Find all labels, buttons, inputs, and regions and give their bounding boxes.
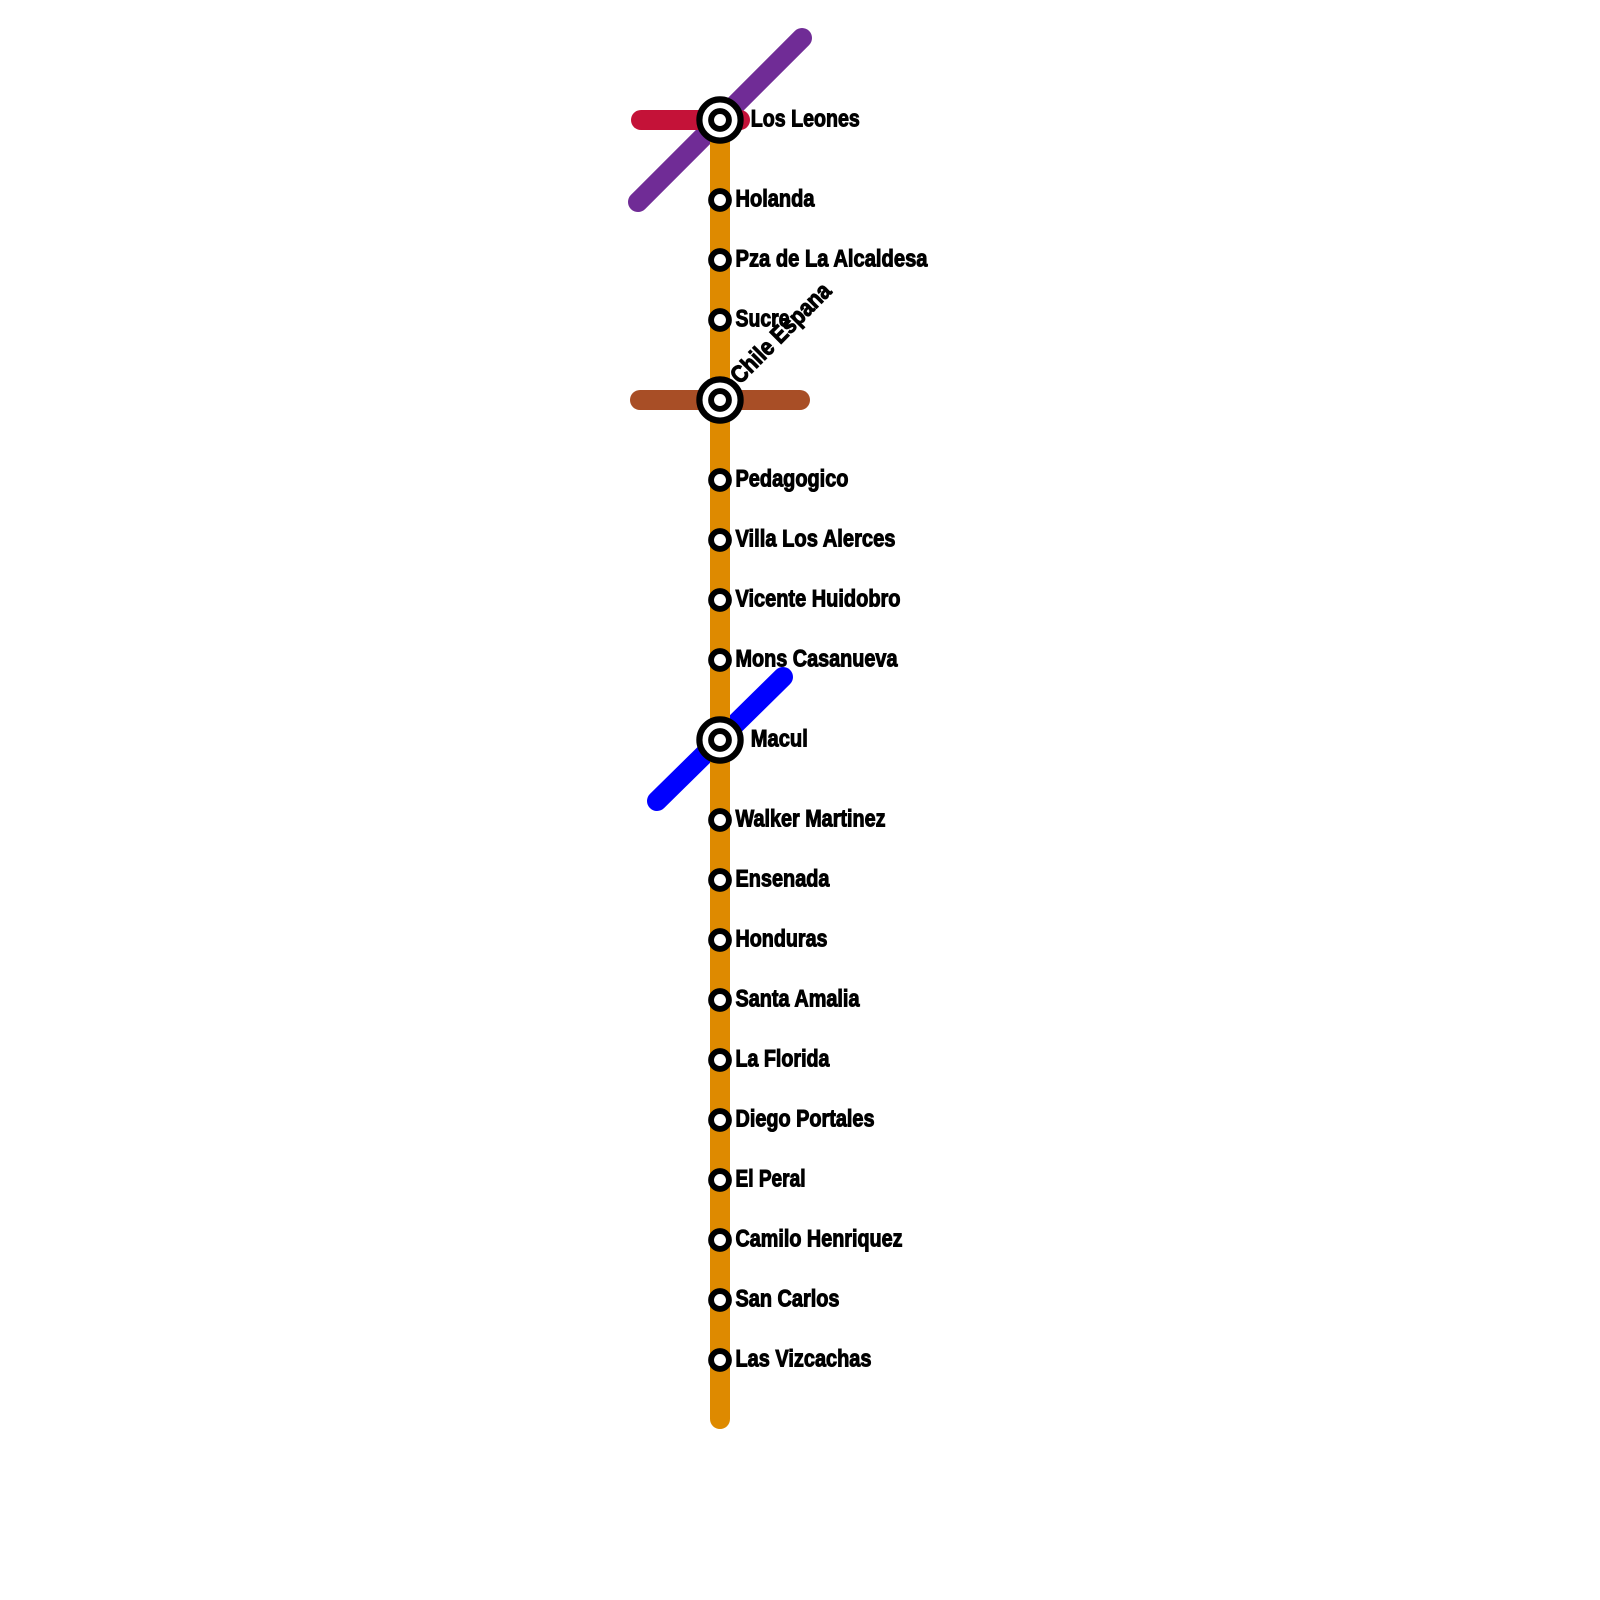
svg-text:Pza de La Alcaldesa: Pza de La Alcaldesa (736, 246, 929, 273)
station Diego Portales (711, 1111, 729, 1129)
station Mons Casanueva (711, 651, 729, 669)
station San Carlos (711, 1291, 729, 1309)
svg-text:Honduras: Honduras (736, 926, 828, 953)
orange main line (710, 120, 730, 1419)
station Las Vizcachas (711, 1351, 729, 1369)
brown connecting line at Chile Espana (640, 390, 800, 410)
svg-text:Pedagogico: Pedagogico (736, 466, 849, 493)
svg-text:La Florida: La Florida (736, 1046, 831, 1073)
crimson connecting line at Los Leones (641, 110, 740, 130)
station Honduras (711, 931, 729, 949)
svg-text:Los Leones: Los Leones (751, 106, 860, 133)
station Pza de La Alcaldesa (711, 251, 729, 269)
station Camilo Henriquez (711, 1231, 729, 1249)
purple connecting line at Los Leones (638, 38, 802, 202)
svg-text:Walker Martinez: Walker Martinez (736, 806, 886, 833)
station Holanda (711, 191, 729, 209)
svg-text:Santa Amalia: Santa Amalia (736, 986, 861, 1013)
station Sucre (711, 311, 729, 329)
svg-text:San Carlos: San Carlos (736, 1286, 840, 1313)
station La Florida (711, 1051, 729, 1069)
station Pedagogico (711, 471, 729, 489)
svg-text:Macul: Macul (751, 726, 808, 753)
interchange station Macul (699, 719, 740, 760)
svg-text:El Peral: El Peral (736, 1166, 806, 1193)
station El Peral (711, 1171, 729, 1189)
svg-text:Villa Los Alerces: Villa Los Alerces (736, 526, 896, 553)
svg-text:Diego Portales: Diego Portales (736, 1106, 875, 1133)
svg-text:Vicente Huidobro: Vicente Huidobro (736, 586, 901, 613)
svg-text:Ensenada: Ensenada (736, 866, 831, 893)
station Santa Amalia (711, 991, 729, 1009)
station Ensenada (711, 871, 729, 889)
station Vicente Huidobro (711, 591, 729, 609)
svg-text:Las Vizcachas: Las Vizcachas (736, 1346, 872, 1373)
interchange station Chile Espana (699, 379, 740, 420)
interchange station Los Leones (699, 99, 740, 140)
blue connecting line at Macul (657, 677, 783, 801)
svg-text:Mons Casanueva: Mons Casanueva (736, 646, 899, 673)
station Walker Martinez (711, 811, 729, 829)
station Villa Los Alerces (711, 531, 729, 549)
svg-text:Holanda: Holanda (736, 186, 816, 213)
svg-text:Camilo Henriquez: Camilo Henriquez (736, 1226, 903, 1253)
